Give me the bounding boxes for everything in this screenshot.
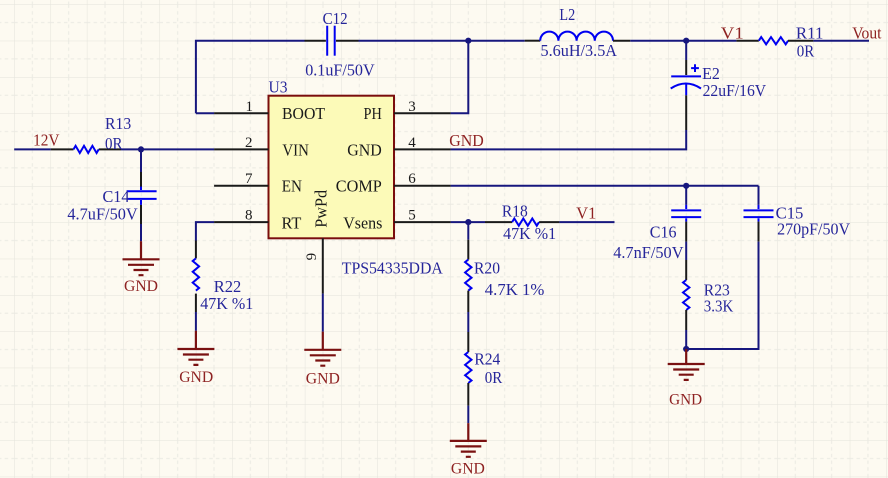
op-amp U3 TPS54335DDA body — [269, 96, 395, 239]
svg-text:Vout: Vout — [852, 24, 882, 43]
pin 9 PwPd — [304, 238, 323, 293]
node output junction — [683, 38, 689, 44]
pin 8 RT — [214, 207, 268, 223]
pin 7 EN — [214, 171, 268, 187]
capacitor C14 — [127, 172, 157, 224]
wire R22 to GND — [195, 312, 197, 331]
svg-text:GND: GND — [347, 140, 382, 159]
svg-text:C16: C16 — [650, 223, 677, 242]
svg-text:270pF/50V: 270pF/50V — [777, 220, 850, 239]
node VIN junction — [138, 146, 144, 152]
pin 1 BOOT — [214, 99, 268, 115]
svg-text:5.6uH/3.5A: 5.6uH/3.5A — [541, 41, 618, 60]
svg-text:R20: R20 — [474, 258, 500, 277]
wire 12V input to VIN — [14, 148, 214, 150]
wire PH vertical — [451, 41, 469, 114]
wire L2 to output node — [630, 40, 686, 42]
wire R11 to Vout — [813, 40, 869, 42]
node COMP junction at C16 — [683, 183, 689, 189]
pin 3 PH — [394, 99, 451, 115]
svg-text:RT: RT — [282, 213, 302, 232]
pin 6 COMP — [394, 171, 451, 187]
resistor R11 — [736, 37, 813, 44]
svg-text:4.7nF/50V: 4.7nF/50V — [613, 243, 683, 262]
svg-text:47K %1: 47K %1 — [200, 294, 253, 313]
svg-text:PwPd: PwPd — [312, 189, 331, 228]
capacitor C12 — [305, 26, 359, 56]
svg-text:TPS54335DDA: TPS54335DDA — [342, 259, 443, 278]
svg-text:8: 8 — [245, 207, 253, 223]
svg-text:V1: V1 — [576, 204, 596, 223]
svg-text:7: 7 — [245, 171, 253, 187]
svg-text:BOOT: BOOT — [282, 104, 325, 123]
svg-text:0R: 0R — [485, 368, 503, 387]
resistor R24 — [465, 332, 471, 406]
wire C16 to R23 — [685, 242, 687, 260]
svg-text:GND: GND — [449, 131, 484, 150]
wire pin9 to GND — [322, 294, 324, 332]
svg-text:0.1uF/50V: 0.1uF/50V — [305, 61, 374, 80]
pin 5 Vsens — [394, 207, 451, 223]
svg-text:V1: V1 — [721, 24, 744, 43]
node Vsens junction — [465, 219, 471, 225]
svg-text:C14: C14 — [103, 187, 130, 206]
wire PH node to L2 — [468, 40, 524, 42]
wire C14 branch — [140, 149, 142, 172]
capacitor C16 — [671, 186, 701, 242]
svg-text:9: 9 — [304, 253, 320, 261]
svg-text:4.7uF/50V: 4.7uF/50V — [67, 205, 137, 224]
svg-text:6: 6 — [408, 171, 416, 187]
wire RT to R22 — [196, 222, 214, 240]
svg-text:GND: GND — [124, 278, 158, 295]
svg-text:GND: GND — [669, 392, 702, 409]
pin 2 VIN — [214, 135, 268, 151]
svg-text:0R: 0R — [105, 134, 123, 153]
svg-text:EN: EN — [282, 176, 302, 195]
svg-text:12V: 12V — [33, 131, 59, 150]
resistor R18 — [485, 219, 559, 226]
svg-text:47K %1: 47K %1 — [503, 224, 556, 243]
svg-text:R11: R11 — [796, 24, 824, 43]
svg-text:Vsens: Vsens — [343, 213, 382, 232]
svg-text:5: 5 — [408, 207, 416, 223]
svg-text:22uF/16V: 22uF/16V — [703, 81, 767, 100]
U3 pin names — [282, 104, 383, 232]
capacitor C15 — [744, 186, 774, 242]
node PH junction — [465, 38, 471, 44]
svg-text:L2: L2 — [559, 5, 575, 24]
svg-text:GND: GND — [451, 460, 485, 477]
node C15/R23 bottom junction — [683, 346, 689, 352]
wire BOOT loop — [196, 41, 305, 114]
ground GND under C16/R23 — [668, 349, 705, 380]
svg-text:4.7K 1%: 4.7K 1% — [485, 280, 545, 299]
resistor R22 — [193, 241, 199, 313]
wire C15 to bottom node — [686, 242, 758, 349]
wire Vsens junction down to R20 — [467, 222, 469, 240]
wire C14 to GND — [140, 224, 142, 241]
svg-text:4: 4 — [408, 135, 416, 151]
svg-text:R13: R13 — [105, 114, 131, 133]
ground GND under pin 9 — [304, 332, 341, 366]
wire COMP net — [451, 185, 759, 187]
wire C12 to PH node — [359, 40, 469, 42]
capacitor E2 (polarized) — [671, 41, 701, 130]
ground GND under R24 — [450, 423, 487, 457]
wire R23 to bottom node — [685, 330, 687, 349]
svg-text:C12: C12 — [323, 9, 348, 28]
svg-text:VIN: VIN — [282, 140, 308, 159]
svg-text:GND: GND — [179, 369, 213, 386]
ground GND under C14 — [123, 241, 160, 275]
wire Vsens net — [451, 221, 485, 223]
wire output node to R11 — [686, 40, 736, 42]
ground GND under R22 — [177, 331, 214, 365]
wire E2 to GND net — [451, 130, 687, 149]
resistor R13 — [51, 146, 121, 153]
resistor R20 — [465, 240, 471, 312]
svg-text:R18: R18 — [502, 202, 528, 221]
wire R18 to V1 — [559, 221, 614, 223]
svg-text:GND: GND — [306, 370, 340, 387]
resistor R23 — [683, 260, 689, 330]
svg-text:COMP: COMP — [336, 176, 382, 195]
wire R24 to GND — [467, 406, 469, 424]
wire R20 to R24 — [467, 312, 469, 332]
svg-text:2: 2 — [245, 135, 253, 151]
svg-text:PH: PH — [364, 104, 382, 123]
svg-text:R24: R24 — [474, 350, 500, 369]
svg-text:1: 1 — [246, 99, 254, 115]
svg-text:0R: 0R — [797, 41, 815, 60]
svg-text:U3: U3 — [269, 78, 288, 97]
inductor L2 — [525, 32, 631, 41]
pin 4 GND — [394, 135, 451, 151]
svg-text:3: 3 — [408, 99, 416, 115]
svg-text:3.3K: 3.3K — [704, 297, 734, 316]
